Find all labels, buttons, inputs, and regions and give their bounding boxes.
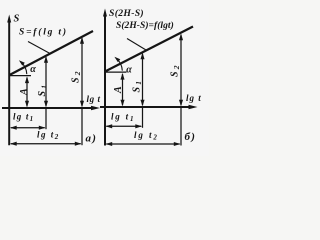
right graph t2 guide line below axis [180,107,182,146]
svg-text:α: α [30,64,36,75]
left graph dimension arrow A [25,76,29,107]
svg-text:S1: S1 [37,83,49,97]
right graph x-axis [100,105,198,109]
svg-text:S2: S2 [169,63,181,77]
right graph t1 guide line below axis [142,107,144,128]
left graph lg t1 dimension arrow [10,126,46,130]
left graph angle arc with arrow [19,60,27,74]
right graph main straight line [105,27,193,72]
left graph y-axis [7,15,11,146]
svg-text:S1: S1 [131,79,143,93]
left graph x-axis [2,106,100,110]
left graph lg t2 dimension arrow [10,142,82,146]
svg-text:lg t: lg t [186,93,202,103]
right graph dimension arrow A [120,73,124,107]
right graph leader line [127,39,146,51]
svg-text:S(2H-S)=f(lgt): S(2H-S)=f(lgt) [116,20,174,31]
svg-text:α: α [126,65,132,76]
left graph angle horizontal reference line [10,75,32,77]
right graph dimension arrow S1 [140,53,144,107]
svg-text:A: A [19,88,30,96]
svg-text:S: S [14,14,20,25]
right graph lg t2 dimension arrow [106,142,181,146]
svg-text:S=f(lg t): S=f(lg t) [19,27,68,38]
right graph angle arc with arrow [114,57,122,71]
left graph t1 guide line below axis [45,108,47,129]
left graph main straight line [10,31,94,75]
svg-text:а): а) [86,133,98,145]
svg-text:S(2H-S): S(2H-S) [109,8,144,19]
left graph dimension arrow S1 [44,56,48,107]
right graph dimension arrow S2 [179,34,183,107]
right graph lg t1 dimension arrow [106,124,143,128]
left graph dimension arrow S2 [80,37,84,107]
svg-text:S2: S2 [70,69,82,83]
svg-text:A: A [113,86,124,94]
left graph leader line [28,42,50,54]
svg-text:б): б) [185,131,197,143]
svg-text:lg t: lg t [87,94,101,104]
left graph t2 guide line below axis [81,108,83,145]
right graph angle horizontal reference line [105,71,127,73]
right graph y-axis [103,9,107,146]
